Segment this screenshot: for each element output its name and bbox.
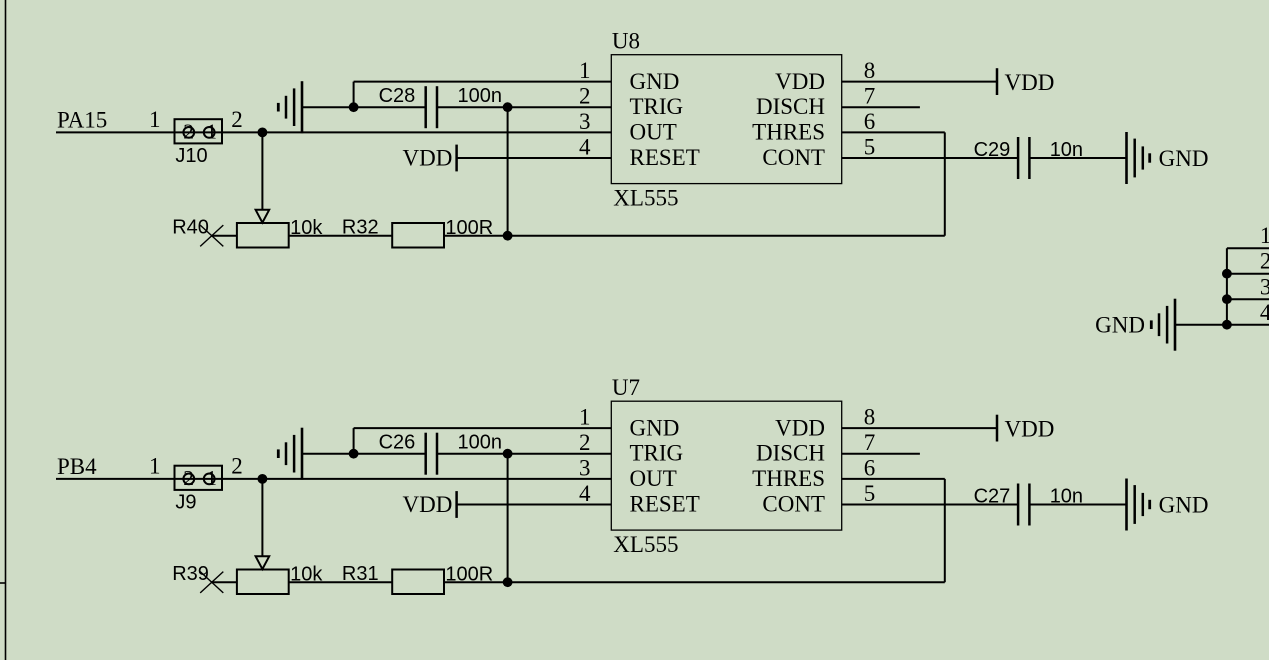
- wire THRES pin 6 of U8 down to resistor net: [842, 132, 945, 235]
- svg-text:7: 7: [864, 84, 876, 109]
- no-connect cross at R40 pin: [200, 225, 223, 246]
- value label 10n of C27: [1050, 486, 1083, 508]
- svg-text:1: 1: [1260, 223, 1269, 248]
- wire PA15 to U8 OUT (pin 3): [56, 131, 611, 133]
- reference label J9: [175, 491, 196, 513]
- value label 10k of R40: [290, 217, 323, 239]
- svg-text:100n: 100n: [458, 85, 503, 107]
- wire GND pin 1 of U7: [354, 428, 612, 454]
- op-amp/timer IC U8 XL555: [611, 55, 841, 184]
- op-amp/timer IC U7 XL555: [611, 401, 841, 530]
- svg-text:J9: J9: [175, 491, 196, 513]
- wire CONT pin 5 of U8 to C29: [842, 157, 1018, 159]
- value label 10k of R39: [290, 564, 323, 586]
- jumper J10: [175, 119, 223, 143]
- value label XL555 of U7: [613, 532, 678, 557]
- net label PB4: [57, 454, 97, 479]
- resistor R32: [392, 223, 444, 248]
- reference label C29: [974, 139, 1011, 161]
- pin number 1 of U7: [579, 405, 591, 430]
- wiper arrow of R40: [256, 210, 270, 223]
- pin name TRIG of U8: [630, 94, 684, 119]
- junction: [258, 474, 268, 484]
- wire ground to junction: [302, 453, 426, 455]
- svg-text:1: 1: [579, 58, 591, 83]
- svg-text:3: 3: [579, 109, 591, 134]
- net label VDD: [403, 492, 453, 517]
- pin number 1 of J10: [149, 107, 161, 132]
- svg-text:VDD: VDD: [1005, 416, 1055, 441]
- svg-text:2: 2: [231, 453, 243, 478]
- svg-text:TRIG: TRIG: [630, 94, 684, 119]
- svg-text:2: 2: [1260, 248, 1269, 273]
- wire connector pin 3: [1227, 298, 1269, 300]
- pin name DISCH of U7: [756, 441, 825, 466]
- net label VDD: [1005, 70, 1055, 95]
- pin number 6 of U7: [864, 455, 876, 480]
- reference label C27: [974, 486, 1011, 508]
- svg-text:XL555: XL555: [613, 185, 678, 210]
- svg-text:GND: GND: [630, 415, 680, 440]
- svg-text:5: 5: [864, 134, 876, 159]
- svg-text:2: 2: [183, 119, 194, 143]
- svg-text:8: 8: [864, 58, 876, 83]
- svg-text:GND: GND: [1159, 146, 1209, 171]
- value label 100R of R31: [445, 564, 493, 586]
- wire VDD pin 8 of U8: [842, 81, 997, 83]
- pin number 2 of U8: [579, 84, 591, 109]
- potentiometer R39: [237, 570, 289, 595]
- pin number 2 of connector: [1260, 248, 1269, 273]
- pin name CONT of U7: [762, 491, 825, 516]
- svg-text:U7: U7: [612, 375, 640, 400]
- pin number 2 of J10: [231, 107, 243, 132]
- pin number 4 of U8: [579, 134, 591, 159]
- junction: [258, 127, 268, 137]
- reference label J10: [175, 145, 207, 167]
- pin name THRES of U7: [752, 466, 825, 491]
- junction: [503, 231, 513, 241]
- wire C28 to TRIG pin 2 of U8: [437, 106, 611, 108]
- pin name GND of U8: [630, 69, 680, 94]
- wire VDD to RESET pin 4 of U8: [457, 157, 612, 159]
- pin number 2 of J9: [231, 453, 243, 478]
- pin number 3 of connector: [1260, 275, 1269, 300]
- pin name THRES of U8: [752, 119, 825, 144]
- wire DISCH pin 7 stub of U7: [842, 453, 920, 455]
- wire junction down to R39 wiper: [261, 479, 263, 556]
- wire ground to junction: [302, 106, 426, 108]
- pin name RESET of U8: [630, 145, 700, 170]
- svg-text:100n: 100n: [458, 431, 503, 453]
- wire R39 to R31: [289, 581, 393, 583]
- wire C29 to ground: [1029, 157, 1126, 159]
- net label GND: [1159, 146, 1209, 171]
- svg-text:VDD: VDD: [403, 492, 453, 517]
- svg-text:RESET: RESET: [630, 145, 700, 170]
- resistor R31: [392, 570, 444, 595]
- svg-text:C26: C26: [379, 431, 416, 453]
- value label 100R of R32: [445, 217, 493, 239]
- svg-text:U8: U8: [612, 28, 640, 53]
- junction: [503, 449, 513, 459]
- power symbol VDD (reset): [455, 491, 458, 518]
- wire GND pin 1 of U8: [354, 82, 612, 108]
- svg-text:R32: R32: [342, 216, 379, 238]
- wire THRES pin 6 of U7 down to resistor net: [842, 479, 945, 582]
- svg-text:1: 1: [206, 466, 217, 490]
- svg-text:1: 1: [149, 107, 161, 132]
- sheet border tick: [0, 582, 6, 584]
- svg-text:DISCH: DISCH: [756, 94, 825, 119]
- svg-text:6: 6: [864, 455, 876, 480]
- power symbol VDD (pin 8): [996, 68, 999, 95]
- svg-text:PB4: PB4: [57, 454, 97, 479]
- wire CONT pin 5 of U7 to C27: [842, 504, 1018, 506]
- wire R39 left stub: [211, 581, 237, 583]
- svg-text:OUT: OUT: [630, 466, 677, 491]
- wire R32 to THRES riser: [444, 235, 945, 237]
- pin name RESET of U7: [630, 491, 700, 516]
- sheet border line: [5, 0, 7, 660]
- svg-text:7: 7: [864, 430, 876, 455]
- connector (off-sheet, pins 1-4): [1226, 248, 1228, 325]
- svg-text:8: 8: [864, 405, 876, 430]
- wire DISCH pin 7 stub of U8: [842, 106, 920, 108]
- pin number 4 of U7: [579, 481, 591, 506]
- pin number 2 of U7: [579, 430, 591, 455]
- svg-text:2: 2: [579, 84, 591, 109]
- ground symbol (signal ground, pointing right): [1127, 132, 1150, 184]
- potentiometer R40: [237, 223, 289, 248]
- svg-text:R31: R31: [342, 563, 379, 585]
- svg-text:GND: GND: [1095, 313, 1145, 338]
- net label PA15: [57, 107, 107, 132]
- power symbol VDD (pin 8): [996, 415, 999, 442]
- pin number 5 of U8: [864, 134, 876, 159]
- svg-text:5: 5: [864, 481, 876, 506]
- wire R31 to THRES riser: [444, 581, 945, 583]
- pin name OUT of U8: [630, 119, 677, 144]
- net label VDD: [403, 146, 453, 171]
- pin name VDD of U8: [775, 69, 825, 94]
- svg-text:1: 1: [206, 119, 217, 143]
- wire junction down to R40 wiper: [261, 132, 263, 209]
- svg-text:XL555: XL555: [613, 532, 678, 557]
- svg-text:6: 6: [864, 109, 876, 134]
- junction: [349, 102, 359, 112]
- net label VDD: [1005, 416, 1055, 441]
- junction: [349, 449, 359, 459]
- svg-text:VDD: VDD: [1005, 70, 1055, 95]
- pin number 7 of U7: [864, 430, 876, 455]
- wire VDD to RESET pin 4 of U7: [457, 504, 612, 506]
- svg-text:2: 2: [231, 107, 243, 132]
- junction: [503, 577, 513, 587]
- svg-text:J10: J10: [175, 145, 207, 167]
- reference label R31: [342, 563, 379, 585]
- svg-text:CONT: CONT: [762, 145, 825, 170]
- ground symbol (signal ground, pointing left): [1151, 299, 1175, 351]
- ground symbol (signal ground, pointing right): [1127, 479, 1150, 531]
- svg-text:CONT: CONT: [762, 491, 825, 516]
- pin name GND of U7: [630, 415, 680, 440]
- svg-text:1: 1: [579, 405, 591, 430]
- svg-text:4: 4: [579, 134, 591, 159]
- svg-text:OUT: OUT: [630, 119, 677, 144]
- pin number 1 of U8: [579, 58, 591, 83]
- wire C26 to TRIG pin 2 of U7: [437, 453, 611, 455]
- pin number 3 of U7: [579, 455, 591, 480]
- value label 100n of C28: [458, 85, 503, 107]
- svg-text:2: 2: [579, 430, 591, 455]
- svg-text:C27: C27: [974, 486, 1011, 508]
- reference label C28: [379, 85, 416, 107]
- svg-text:GND: GND: [630, 69, 680, 94]
- junction: [1222, 320, 1232, 330]
- wire R40 to R32: [289, 235, 393, 237]
- svg-text:1: 1: [149, 453, 161, 478]
- pin name TRIG of U7: [630, 441, 684, 466]
- svg-text:PA15: PA15: [57, 107, 107, 132]
- ground symbol (signal ground, pointing left): [278, 428, 302, 480]
- wire connector pin 4 / GND: [1175, 324, 1269, 326]
- svg-text:4: 4: [579, 481, 591, 506]
- wiper arrow of R39: [256, 556, 270, 569]
- svg-text:TRIG: TRIG: [630, 441, 684, 466]
- wire connector pin 1: [1227, 247, 1269, 249]
- pin name DISCH of U8: [756, 94, 825, 119]
- value label 100n of C26: [458, 431, 503, 453]
- svg-text:3: 3: [1260, 275, 1269, 300]
- junction: [1222, 269, 1232, 279]
- reference label C26: [379, 431, 416, 453]
- pin number 1 of connector: [1260, 223, 1269, 248]
- value label XL555 of U8: [613, 185, 678, 210]
- wire VDD pin 8 of U7: [842, 427, 997, 429]
- pin number 3 of U8: [579, 109, 591, 134]
- wire R40 left stub: [211, 235, 237, 237]
- reference label R39: [172, 563, 209, 585]
- power symbol VDD (reset): [455, 145, 458, 172]
- pin name VDD of U7: [775, 415, 825, 440]
- pin number 7 of U8: [864, 84, 876, 109]
- wire riser TRIG net: [507, 454, 509, 583]
- pin number 8 of U8: [864, 58, 876, 83]
- wire PB4 to U7 OUT (pin 3): [56, 478, 611, 480]
- pin name OUT of U7: [630, 466, 677, 491]
- pin number 5 of U7: [864, 481, 876, 506]
- reference label R40: [172, 216, 209, 238]
- pin number 1 of J9: [149, 453, 161, 478]
- junction: [503, 102, 513, 112]
- svg-text:4: 4: [1260, 300, 1269, 325]
- svg-text:DISCH: DISCH: [756, 441, 825, 466]
- capacitor C28: [426, 86, 437, 128]
- ground symbol (signal ground, pointing left): [278, 81, 302, 133]
- svg-text:C29: C29: [974, 139, 1011, 161]
- reference label U8: [612, 28, 640, 53]
- pin number 6 of U8: [864, 109, 876, 134]
- svg-text:2: 2: [183, 466, 194, 490]
- pin number 4 of connector: [1260, 300, 1269, 325]
- reference label U7: [612, 375, 640, 400]
- svg-text:RESET: RESET: [630, 491, 700, 516]
- svg-text:3: 3: [579, 455, 591, 480]
- svg-text:GND: GND: [1159, 492, 1209, 517]
- pin name CONT of U8: [762, 145, 825, 170]
- capacitor C27: [1018, 484, 1029, 526]
- junction: [1222, 294, 1232, 304]
- svg-text:C28: C28: [379, 85, 416, 107]
- reference label R32: [342, 216, 379, 238]
- svg-text:VDD: VDD: [775, 69, 825, 94]
- svg-text:VDD: VDD: [775, 415, 825, 440]
- pin number 8 of U7: [864, 405, 876, 430]
- wire connector pin 2: [1227, 273, 1269, 275]
- value label 10n of C29: [1050, 139, 1083, 161]
- wire riser TRIG net: [507, 107, 509, 236]
- svg-text:VDD: VDD: [403, 146, 453, 171]
- capacitor C29: [1018, 137, 1029, 179]
- net label GND: [1159, 492, 1209, 517]
- net label GND: [1095, 313, 1145, 338]
- no-connect cross at R39 pin: [200, 572, 223, 593]
- svg-text:THRES: THRES: [752, 466, 825, 491]
- jumper J9: [175, 466, 223, 490]
- wire C27 to ground: [1029, 504, 1126, 506]
- capacitor C26: [426, 433, 437, 475]
- svg-text:THRES: THRES: [752, 119, 825, 144]
